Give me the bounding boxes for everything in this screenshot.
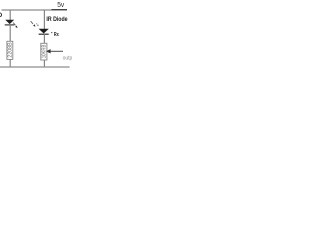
wire R1 to ground rail xyxy=(9,59,11,67)
svg-text:output: output xyxy=(63,56,72,62)
wire right branch from rail to photodiode xyxy=(43,10,45,29)
photodiode Rx triangle xyxy=(39,29,49,34)
wire left branch from rail to LED anode xyxy=(9,10,11,20)
wire R2 to ground rail xyxy=(43,60,45,67)
svg-text:Rx: Rx xyxy=(54,32,59,38)
IR LED D1 triangle xyxy=(5,20,14,24)
wire photodiode to resistor R2 xyxy=(43,34,45,43)
photodiode incoming light tick 2 xyxy=(36,23,37,24)
resistor R1 box xyxy=(7,41,13,59)
wire LED cathode to resistor R1 xyxy=(9,25,11,41)
mark left of Rx xyxy=(51,32,52,33)
output tap arrow xyxy=(50,50,63,52)
IR LED emission arrow xyxy=(13,23,15,26)
svg-text:2208B: 2208B xyxy=(8,42,14,58)
resistor R2 box xyxy=(41,43,47,60)
faint mark further left of Rx xyxy=(48,34,49,35)
photodiode incoming light arrow xyxy=(31,21,33,24)
wire 5v rail dark segment under label xyxy=(52,9,68,11)
IR LED D1 cathode bar xyxy=(5,24,15,26)
photodiode Rx cathode bar xyxy=(39,33,49,35)
node 5v rail (top supply wire) xyxy=(2,9,68,11)
svg-text:5v: 5v xyxy=(57,2,64,9)
node ground rail (bottom wire) xyxy=(0,66,70,68)
svg-text:D: D xyxy=(0,12,2,19)
svg-text:IR Diode: IR Diode xyxy=(46,16,68,23)
